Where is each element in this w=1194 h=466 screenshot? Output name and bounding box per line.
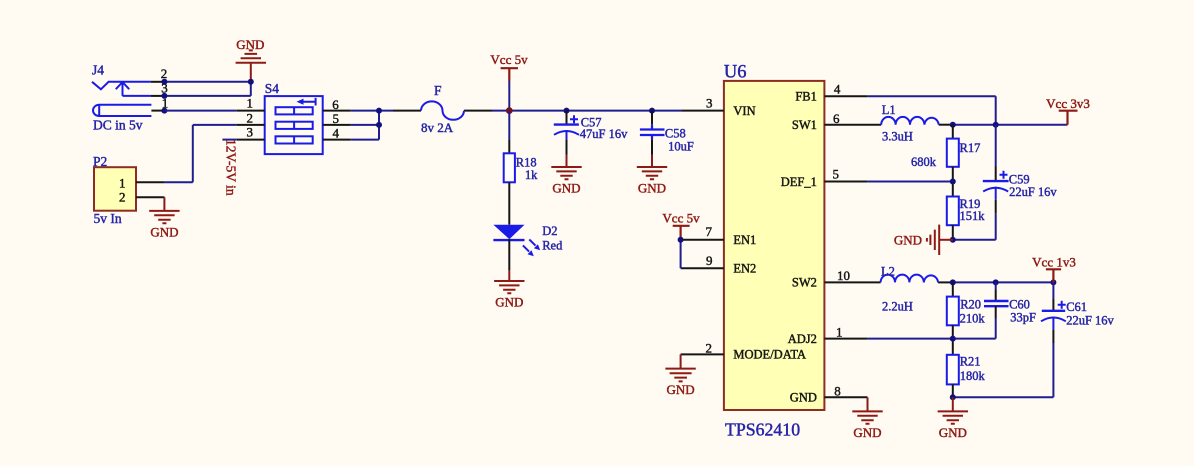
junction dot EN1 [678, 237, 684, 243]
S4 pin 2 [237, 124, 265, 126]
wire MODE/DATA to GND [680, 353, 683, 355]
IC U6 TPS62410 body [724, 81, 825, 410]
svg-text:GND: GND [236, 37, 264, 52]
U6 pin 9 EN2 [681, 267, 724, 269]
svg-text:GND: GND [790, 391, 817, 405]
svg-text:GND: GND [894, 232, 922, 247]
junction dot C58 [649, 108, 655, 114]
svg-text:2: 2 [706, 341, 713, 356]
wire P2 pin1 riser to S4 pin2 [164, 125, 236, 182]
svg-text:2.2uH: 2.2uH [882, 300, 913, 314]
wire fuse to U6 VIN [492, 110, 681, 112]
S4 arrow [302, 98, 316, 106]
svg-text:DC in 5v: DC in 5v [93, 117, 143, 132]
svg-text:ADJ2: ADJ2 [788, 332, 817, 346]
S4 pin 5 [323, 124, 351, 126]
junction dot S4 out row1 [376, 108, 382, 114]
ground (below R21) [938, 397, 968, 423]
fuse F [421, 101, 464, 119]
svg-text:MODE/DATA: MODE/DATA [733, 348, 806, 362]
junction dot C61 top [1050, 279, 1056, 285]
ground (below C58) [637, 155, 667, 179]
S4 switch element 2 [276, 122, 313, 129]
junction dot FB1/C59 column [993, 122, 999, 128]
wire J4 pin2 to GND column [164, 81, 250, 83]
wire D2 to GND [508, 239, 510, 270]
svg-text:C61: C61 [1066, 300, 1087, 314]
wire C58 to GND [651, 140, 653, 155]
svg-text:Vcc 1v3: Vcc 1v3 [1032, 254, 1076, 269]
capacitor C58 [651, 111, 653, 125]
svg-text:Red: Red [542, 238, 563, 252]
svg-text:Vcc 5v: Vcc 5v [662, 211, 700, 226]
wire net 12V-5V in at S4 pin3 [222, 139, 236, 141]
svg-text:Vcc 3v3: Vcc 3v3 [1046, 96, 1090, 111]
inductor L2 [881, 275, 939, 283]
wire R21 bottom [952, 384, 954, 397]
junction dot DEF_1 [950, 179, 956, 185]
resistor R19 [947, 197, 959, 226]
svg-text:22uF 16v: 22uF 16v [1066, 314, 1114, 328]
U6 pin 7 EN1 [681, 239, 724, 241]
wire C57 to GND [566, 139, 568, 155]
svg-text:R21: R21 [960, 355, 981, 369]
svg-text:8: 8 [834, 383, 841, 398]
svg-text:210k: 210k [960, 311, 986, 325]
svg-text:33pF: 33pF [1010, 311, 1036, 325]
svg-text:3: 3 [706, 96, 713, 111]
svg-text:10: 10 [837, 268, 850, 283]
resistor R21 [947, 355, 959, 385]
svg-text:12V-5V in: 12V-5V in [224, 139, 239, 196]
U6 pin 4 FB1 [824, 95, 867, 97]
junction dot C57 [564, 108, 570, 114]
wire S4 pin5 and pin4 tie [351, 111, 379, 140]
svg-text:GND: GND [939, 425, 967, 440]
svg-text:F: F [434, 83, 442, 98]
U6 pin 10 SW2 [824, 281, 880, 283]
svg-text:680k: 680k [911, 155, 937, 169]
wire EN1 [680, 239, 683, 241]
resistor R20 [952, 282, 954, 296]
wire L1 to Vcc 3v3 [953, 124, 1068, 126]
svg-text:TPS62410: TPS62410 [725, 420, 800, 440]
P2 pin 2 [136, 196, 164, 198]
svg-text:S4: S4 [265, 81, 280, 96]
junction dot at GND stem [248, 79, 254, 85]
svg-text:GND: GND [552, 181, 580, 196]
svg-text:R20: R20 [960, 297, 981, 311]
svg-text:10uF: 10uF [668, 139, 694, 153]
junction dot R21 bottom [950, 394, 956, 400]
resistor R18 [504, 153, 515, 182]
svg-text:5: 5 [833, 166, 840, 181]
U6 pin 2 MODE/DATA [681, 353, 724, 355]
svg-text:DEF_1: DEF_1 [781, 175, 817, 189]
fuse F pins [393, 110, 492, 112]
S4 switch element 3 [276, 136, 313, 143]
wire DEF_1 [867, 181, 952, 183]
capacitor C59 [995, 125, 997, 167]
svg-text:D2: D2 [542, 224, 557, 238]
connector P2 [94, 167, 136, 211]
svg-text:EN2: EN2 [733, 262, 756, 276]
P2 pin 1 [136, 181, 164, 183]
svg-text:4: 4 [333, 126, 340, 141]
svg-text:5: 5 [333, 111, 340, 126]
S4 pin 6 [323, 110, 351, 112]
ground (U6 pin 8) [852, 397, 882, 423]
svg-text:L2: L2 [881, 264, 895, 278]
svg-text:5v In: 5v In [94, 211, 122, 226]
wire Vcc 5v stem [508, 81, 510, 111]
svg-text:1k: 1k [525, 168, 538, 182]
wire SW2 to L2 [938, 281, 953, 283]
wire ADJ2 [867, 338, 995, 340]
LED D2 [493, 225, 524, 240]
svg-text:R17: R17 [960, 141, 981, 155]
ground (below P2) [149, 197, 179, 223]
U6 pin 6 SW1 [824, 124, 881, 126]
S4 pin 3 [237, 139, 265, 141]
connector J4 symbol [92, 82, 151, 116]
junction dot S4 out row2 [376, 122, 382, 128]
svg-text:8v 2A: 8v 2A [421, 120, 454, 135]
svg-text:GND: GND [853, 425, 881, 440]
U6 pin 5 DEF_1 [824, 181, 867, 183]
wire bottom row to C59 [953, 214, 996, 240]
svg-text:9: 9 [706, 253, 713, 268]
junction dot L2 out [950, 279, 956, 285]
wire SW1 to L1 [939, 124, 953, 126]
wire R18 to D2 [508, 182, 510, 224]
J4 pin 3 [151, 95, 165, 97]
wire J4 pin3 to GND column [164, 82, 250, 96]
svg-text:L1: L1 [882, 103, 896, 117]
ground (inverted, above J4) [236, 50, 266, 81]
ground (below C57) [551, 155, 581, 179]
svg-text:3.3uH: 3.3uH [882, 130, 913, 144]
svg-text:6: 6 [332, 97, 339, 112]
svg-text:U6: U6 [724, 62, 747, 82]
inductor L1 [881, 117, 939, 125]
svg-text:C60: C60 [1009, 297, 1030, 311]
svg-text:J4: J4 [92, 62, 104, 77]
ground (left-facing at R19 bottom) [927, 225, 953, 255]
svg-text:SW2: SW2 [792, 276, 817, 290]
wire J4 pin1 to S4 pin1 [164, 110, 236, 112]
svg-text:GND: GND [495, 295, 523, 310]
svg-text:47uF 16v: 47uF 16v [580, 127, 628, 141]
ground (MODE/DATA) [665, 354, 695, 381]
svg-text:GND: GND [638, 181, 666, 196]
svg-text:GND: GND [150, 224, 178, 239]
svg-text:P2: P2 [93, 154, 107, 169]
svg-text:180k: 180k [960, 369, 986, 383]
U6 pin 3 VIN [681, 110, 724, 112]
wire EN2 [680, 240, 683, 269]
svg-text:7: 7 [706, 224, 713, 239]
ground (below D2) [494, 270, 524, 293]
svg-text:22uF 16v: 22uF 16v [1009, 185, 1057, 199]
svg-text:3: 3 [247, 124, 254, 139]
svg-text:1: 1 [836, 325, 843, 340]
junction dot L1 out [950, 122, 956, 128]
junction dots at J4 pins [161, 79, 167, 85]
J4 pin 2 [151, 81, 165, 83]
S4 switch element 1 [276, 107, 313, 114]
U6 pin 8 GND [824, 396, 867, 398]
J4 pin 1 [151, 110, 164, 112]
svg-text:4: 4 [834, 82, 841, 97]
junction dot ADJ2 [950, 336, 956, 342]
resistor R17 [952, 125, 954, 139]
wire down to R18 [508, 111, 510, 140]
S4 pin 4 [323, 139, 351, 141]
svg-text:1: 1 [119, 176, 126, 191]
capacitor C60 [995, 282, 997, 290]
svg-text:Vcc 5v: Vcc 5v [490, 52, 528, 67]
junction dot R19 bottom [950, 237, 956, 243]
capacitor C57 [566, 111, 568, 125]
switch S4 [265, 96, 323, 154]
D2 emission arrows [529, 239, 535, 245]
junction dot Vcc 5v (red) [506, 107, 513, 114]
svg-text:SW1: SW1 [792, 118, 817, 132]
svg-text:FB1: FB1 [795, 90, 817, 104]
junction dot C60 top [993, 279, 999, 285]
svg-text:GND: GND [667, 382, 695, 397]
svg-text:151k: 151k [960, 209, 986, 223]
wire S4 pin6 to fuse [351, 110, 393, 112]
svg-text:2: 2 [247, 110, 254, 125]
svg-text:EN1: EN1 [733, 233, 756, 247]
capacitor C61 [1052, 282, 1054, 299]
wire R20 to R21 [952, 325, 954, 355]
svg-text:1: 1 [247, 96, 254, 111]
wire FB1 riser [867, 96, 995, 125]
wire R19 bottom [952, 225, 954, 240]
wire bottom row2 to C61 [953, 343, 1054, 397]
wire L2 to Vcc 1v3 [953, 281, 1054, 283]
svg-text:2: 2 [119, 190, 126, 205]
svg-text:VIN: VIN [733, 104, 755, 118]
svg-text:6: 6 [833, 111, 840, 126]
S4 pin 1 [237, 110, 265, 112]
U6 pin 1 ADJ2 [824, 338, 867, 340]
wire R17 to R19 [952, 167, 954, 197]
